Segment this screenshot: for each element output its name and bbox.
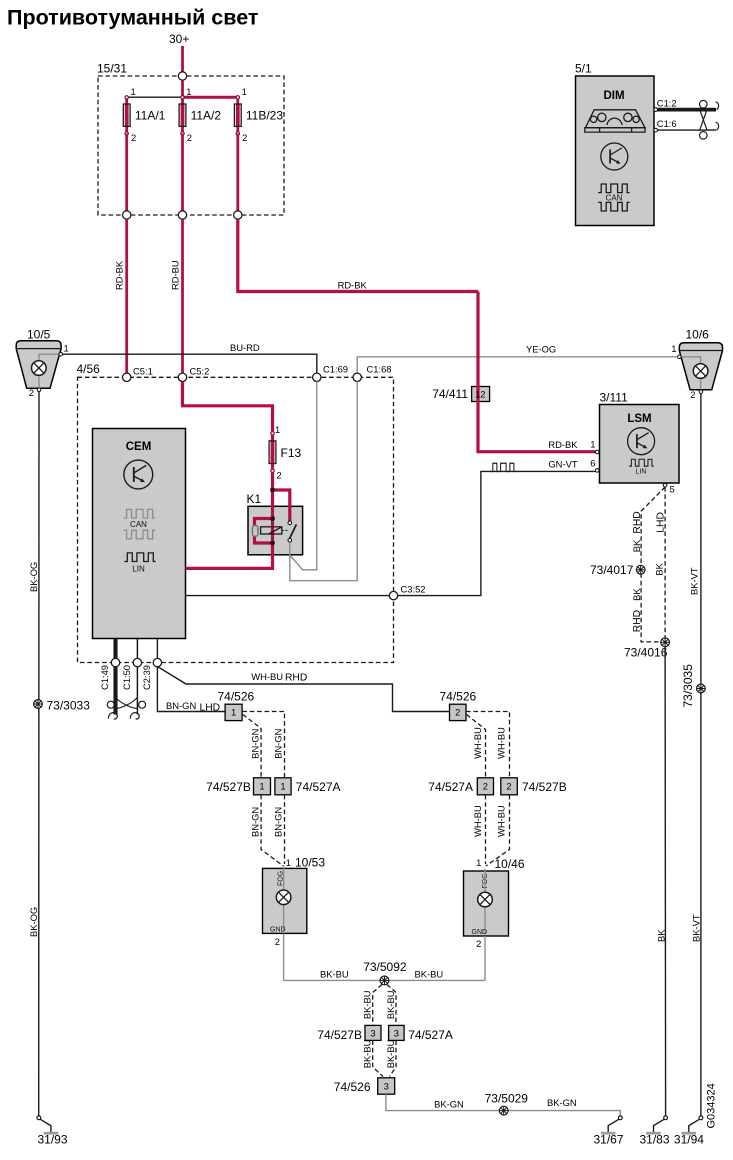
svg-text:74/526: 74/526 bbox=[440, 690, 477, 704]
svg-text:LHD: LHD bbox=[200, 703, 221, 714]
svg-text:1: 1 bbox=[275, 424, 280, 435]
svg-text:BK-OG: BK-OG bbox=[28, 562, 39, 592]
svg-text:1: 1 bbox=[476, 857, 481, 868]
svg-text:30+: 30+ bbox=[169, 32, 189, 46]
svg-text:RD-BK: RD-BK bbox=[548, 439, 578, 450]
svg-text:12: 12 bbox=[475, 389, 485, 400]
svg-text:BK-BU: BK-BU bbox=[362, 990, 373, 1019]
svg-text:BK-VT: BK-VT bbox=[690, 914, 701, 942]
svg-text:C1:68: C1:68 bbox=[367, 364, 392, 375]
svg-text:73/3033: 73/3033 bbox=[47, 699, 91, 713]
svg-text:1: 1 bbox=[259, 781, 264, 792]
svg-text:BK: BK bbox=[631, 539, 642, 552]
svg-text:C5:1: C5:1 bbox=[133, 366, 153, 377]
svg-text:RD-BK: RD-BK bbox=[338, 280, 368, 291]
svg-text:RD-BU: RD-BU bbox=[170, 260, 181, 290]
svg-text:1: 1 bbox=[590, 439, 595, 450]
svg-text:LIN: LIN bbox=[132, 565, 145, 574]
svg-text:2: 2 bbox=[187, 132, 192, 143]
svg-text:74/527A: 74/527A bbox=[296, 780, 341, 794]
svg-text:Противотуманный свет: Противотуманный свет bbox=[7, 6, 258, 30]
svg-text:C1:69: C1:69 bbox=[323, 364, 348, 375]
svg-text:LIN: LIN bbox=[636, 469, 647, 476]
svg-text:1: 1 bbox=[131, 86, 136, 97]
svg-text:BK-GN: BK-GN bbox=[434, 1098, 464, 1109]
svg-text:BK-BU: BK-BU bbox=[320, 969, 349, 980]
svg-text:RHD: RHD bbox=[632, 610, 643, 632]
svg-text:2: 2 bbox=[690, 389, 695, 400]
svg-text:F13: F13 bbox=[281, 446, 302, 460]
svg-text:74/527A: 74/527A bbox=[428, 780, 473, 794]
svg-text:74/527B: 74/527B bbox=[522, 780, 567, 794]
svg-text:3: 3 bbox=[384, 1081, 389, 1092]
svg-text:C5:2: C5:2 bbox=[190, 366, 210, 377]
svg-text:11B/23: 11B/23 bbox=[246, 109, 283, 123]
svg-text:BN-GN: BN-GN bbox=[250, 807, 261, 837]
svg-text:BK: BK bbox=[631, 588, 642, 601]
svg-text:BK-OG: BK-OG bbox=[28, 907, 39, 937]
svg-text:74/526: 74/526 bbox=[218, 690, 255, 704]
svg-text:RHD: RHD bbox=[285, 673, 307, 684]
svg-text:4/56: 4/56 bbox=[77, 362, 101, 376]
svg-text:WH-BU: WH-BU bbox=[496, 805, 507, 837]
svg-text:BK-GN: BK-GN bbox=[547, 1097, 577, 1108]
svg-text:3/111: 3/111 bbox=[600, 391, 629, 405]
svg-text:10/6: 10/6 bbox=[686, 328, 710, 342]
svg-text:GND: GND bbox=[472, 929, 488, 936]
svg-text:K1: K1 bbox=[247, 492, 262, 506]
svg-text:74/527A: 74/527A bbox=[408, 1028, 453, 1042]
svg-text:WH-BU: WH-BU bbox=[251, 671, 283, 682]
svg-text:73/5029: 73/5029 bbox=[485, 1091, 529, 1105]
svg-text:1: 1 bbox=[231, 707, 236, 718]
svg-text:6: 6 bbox=[590, 458, 595, 469]
svg-text:5/1: 5/1 bbox=[575, 62, 592, 76]
svg-text:GN-VT: GN-VT bbox=[548, 459, 577, 470]
svg-text:2: 2 bbox=[242, 132, 247, 143]
svg-text:C1:6: C1:6 bbox=[657, 118, 677, 129]
svg-text:1: 1 bbox=[671, 343, 676, 354]
svg-text:BK-VT: BK-VT bbox=[688, 567, 699, 595]
svg-text:2: 2 bbox=[277, 470, 282, 481]
svg-text:74/411: 74/411 bbox=[432, 387, 468, 401]
svg-text:11A/1: 11A/1 bbox=[135, 109, 166, 123]
svg-text:10/46: 10/46 bbox=[495, 857, 525, 871]
svg-text:DIM: DIM bbox=[603, 90, 624, 102]
svg-text:31/83: 31/83 bbox=[640, 1133, 670, 1147]
svg-text:31/94: 31/94 bbox=[674, 1133, 704, 1147]
svg-text:2: 2 bbox=[476, 938, 481, 949]
svg-text:FOG: FOG bbox=[482, 873, 489, 888]
svg-text:10/53: 10/53 bbox=[295, 856, 325, 870]
svg-text:C3:52: C3:52 bbox=[401, 584, 426, 595]
svg-text:BK-BU: BK-BU bbox=[385, 1039, 396, 1068]
svg-text:11A/2: 11A/2 bbox=[191, 109, 222, 123]
svg-text:RHD: RHD bbox=[632, 511, 643, 533]
svg-text:74/526: 74/526 bbox=[334, 1080, 371, 1094]
svg-text:1: 1 bbox=[242, 86, 247, 97]
svg-text:73/3035: 73/3035 bbox=[681, 664, 695, 708]
svg-text:WH-BU: WH-BU bbox=[472, 727, 483, 759]
svg-text:2: 2 bbox=[506, 781, 511, 792]
svg-text:CAN: CAN bbox=[606, 194, 623, 203]
svg-text:RD-BK: RD-BK bbox=[113, 260, 124, 290]
svg-text:1: 1 bbox=[64, 343, 69, 354]
svg-text:BK-BU: BK-BU bbox=[362, 1039, 373, 1068]
svg-text:WH-BU: WH-BU bbox=[496, 727, 507, 759]
svg-text:1: 1 bbox=[286, 857, 291, 868]
svg-text:C1:49: C1:49 bbox=[99, 665, 110, 690]
svg-text:CEM: CEM bbox=[126, 441, 152, 453]
svg-text:WH-BU: WH-BU bbox=[472, 805, 483, 837]
svg-text:73/4017: 73/4017 bbox=[590, 563, 634, 577]
svg-text:74/527B: 74/527B bbox=[317, 1028, 362, 1042]
svg-text:C2:39: C2:39 bbox=[141, 665, 152, 690]
svg-text:BK-BU: BK-BU bbox=[415, 969, 444, 980]
svg-text:1: 1 bbox=[280, 781, 285, 792]
svg-text:73/4016: 73/4016 bbox=[624, 646, 668, 660]
svg-text:BU-RD: BU-RD bbox=[230, 342, 260, 353]
svg-text:C1:2: C1:2 bbox=[657, 97, 677, 108]
svg-text:BN-GN: BN-GN bbox=[166, 700, 196, 711]
svg-text:15/31: 15/31 bbox=[97, 62, 127, 76]
svg-text:G034324: G034324 bbox=[706, 1083, 718, 1128]
svg-text:2: 2 bbox=[483, 781, 488, 792]
svg-text:31/93: 31/93 bbox=[38, 1133, 68, 1147]
svg-text:2: 2 bbox=[131, 132, 136, 143]
svg-text:BN-GN: BN-GN bbox=[250, 729, 261, 759]
svg-text:2: 2 bbox=[275, 936, 280, 947]
svg-text:5: 5 bbox=[670, 484, 675, 495]
svg-text:2: 2 bbox=[455, 707, 460, 718]
svg-text:3: 3 bbox=[370, 1028, 375, 1039]
svg-text:BN-GN: BN-GN bbox=[272, 729, 283, 759]
svg-text:1: 1 bbox=[186, 86, 191, 97]
svg-text:BK-BU: BK-BU bbox=[385, 990, 396, 1019]
svg-text:CAN: CAN bbox=[130, 520, 147, 529]
svg-text:LSM: LSM bbox=[627, 413, 651, 425]
svg-text:LHD: LHD bbox=[656, 512, 667, 533]
svg-text:GND: GND bbox=[270, 927, 286, 934]
svg-text:C1:50: C1:50 bbox=[121, 665, 132, 690]
svg-text:10/5: 10/5 bbox=[27, 328, 51, 342]
svg-text:3: 3 bbox=[394, 1028, 399, 1039]
svg-text:BK: BK bbox=[654, 562, 665, 575]
svg-text:73/5092: 73/5092 bbox=[363, 960, 407, 974]
svg-text:BN-GN: BN-GN bbox=[272, 807, 283, 837]
svg-text:31/67: 31/67 bbox=[594, 1133, 624, 1147]
svg-text:2: 2 bbox=[29, 387, 34, 398]
svg-text:YE-OG: YE-OG bbox=[526, 344, 556, 355]
svg-text:BK: BK bbox=[656, 929, 667, 942]
svg-text:74/527B: 74/527B bbox=[206, 780, 251, 794]
